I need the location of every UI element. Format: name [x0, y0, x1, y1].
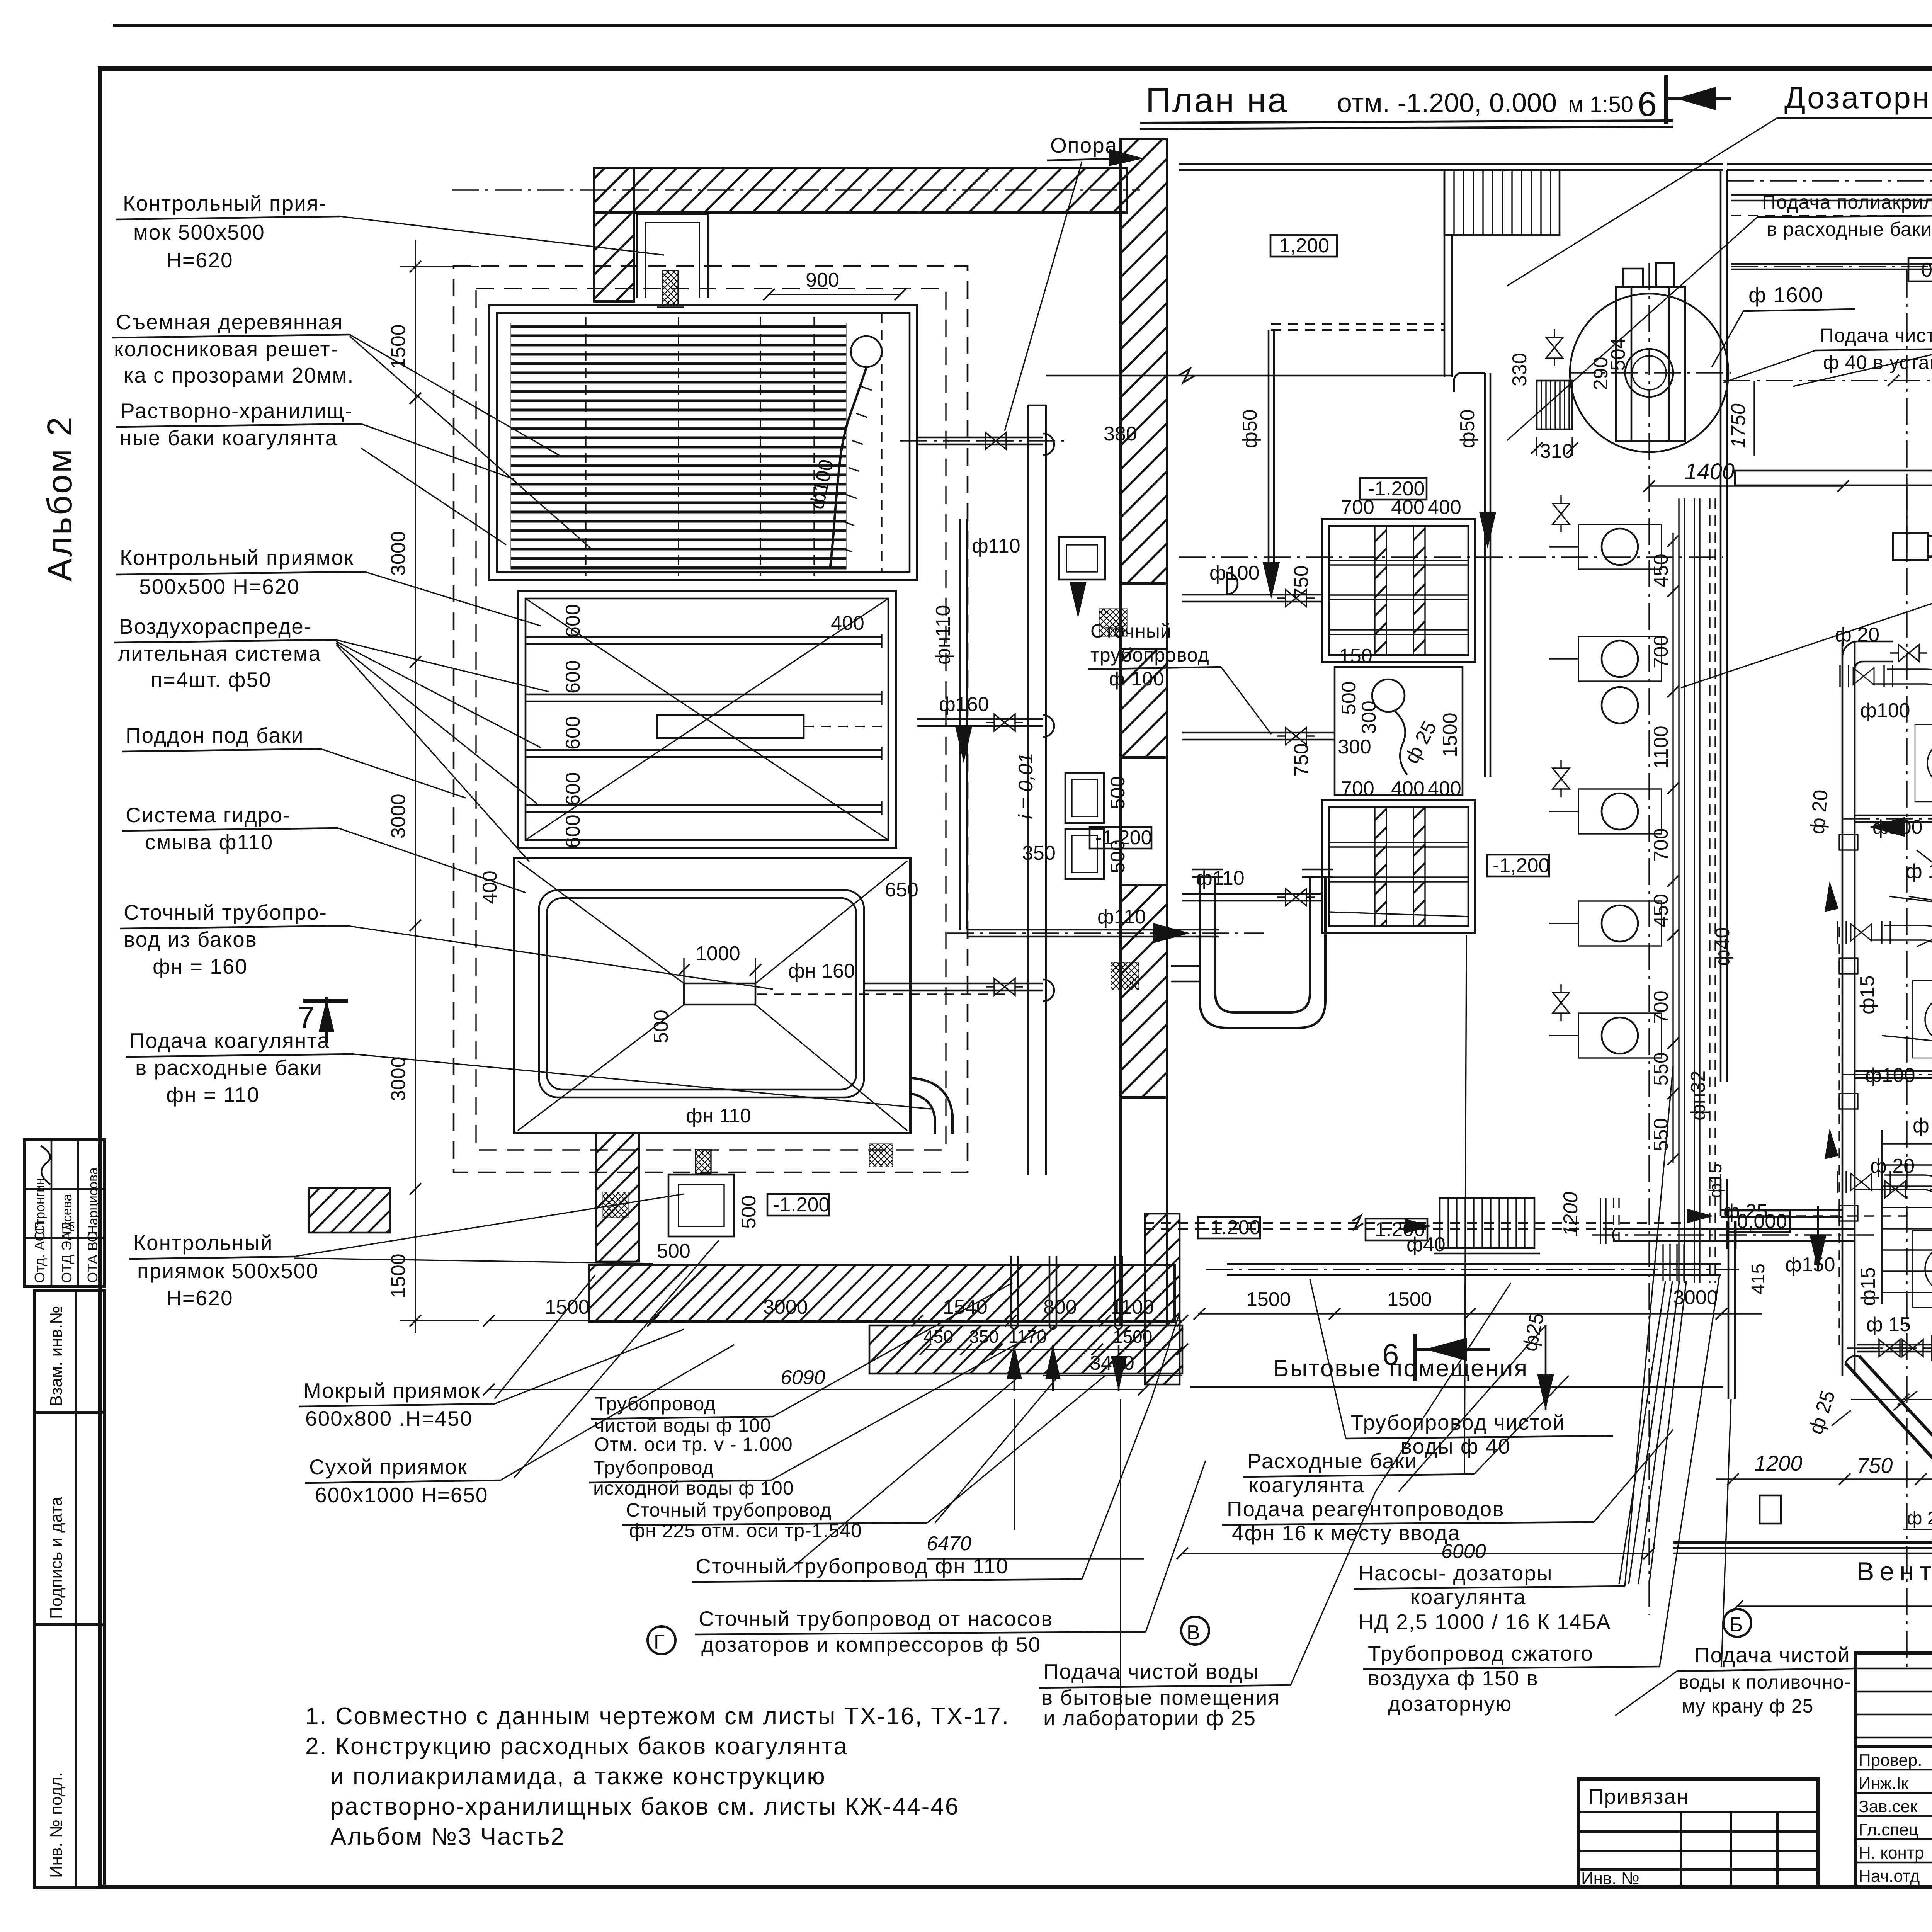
svg-text:6090: 6090 [781, 1366, 825, 1389]
section flag 6 top [1638, 75, 1731, 124]
svg-text:3000: 3000 [1673, 1286, 1718, 1309]
svg-text:коагулянта: коагулянта [1410, 1585, 1526, 1609]
f50 vertical pipe 2 [1454, 373, 1496, 777]
svg-text:6: 6 [1638, 85, 1658, 124]
f20 branch with valve [1855, 1155, 1932, 1198]
svg-text:504: 504 [1607, 337, 1629, 371]
air pipe 1 [525, 634, 882, 648]
label сточный трубопровод ф100 [1088, 620, 1271, 734]
dashed basin outline inner [476, 289, 946, 1150]
compressor unit 3 [1838, 1171, 1932, 1335]
svg-text:ф100: ф100 [1860, 699, 1910, 722]
svg-text:ф50: ф50 [1239, 409, 1261, 448]
svg-text:Съемная деревянная: Съемная деревянная [116, 310, 343, 334]
axis circle Б right [1723, 1609, 1751, 1637]
svg-text:мок 500x500: мок 500x500 [133, 220, 265, 244]
label опоры [1909, 850, 1932, 947]
svg-text:ф160: ф160 [939, 693, 989, 716]
svg-text:3000: 3000 [387, 531, 410, 576]
svg-text:Гусева: Гусева [60, 1194, 75, 1235]
svg-text:лительная система: лительная система [118, 641, 321, 665]
svg-text:Н=620: Н=620 [166, 248, 233, 272]
svg-text:Зав.сек: Зав.сек [1859, 1797, 1918, 1816]
svg-text:в расходные баки: в расходные баки [135, 1056, 323, 1080]
svg-text:фн 110: фн 110 [686, 1105, 751, 1127]
left stamp column [24, 1140, 105, 1888]
bottom labels center-left [305, 1066, 1932, 1850]
svg-text:Мокрый приямок: Мокрый приямок [303, 1379, 481, 1403]
svg-text:i = 0,01: i = 0,01 [1015, 753, 1037, 819]
vertical dim chain mid [1650, 533, 1679, 1165]
П-shaped hydro flush pipe loop [1171, 869, 1333, 1028]
plan title [1140, 81, 1673, 129]
svg-text:ф 20: ф 20 [1870, 1155, 1915, 1177]
svg-text:1100: 1100 [1650, 726, 1672, 769]
wall between дозаторная и компрессорная [1721, 170, 1843, 1217]
axis 13 horizontal [1727, 180, 1932, 181]
svg-text:Контрольный приямок: Контрольный приямок [120, 546, 354, 570]
label: Дозаторная [1507, 80, 1932, 286]
sheet outer top edge line [113, 24, 1932, 27]
svg-text:500: 500 [1107, 840, 1129, 873]
svg-text:воздуха ф 150 в: воздуха ф 150 в [1368, 1666, 1539, 1690]
title block [1578, 1653, 1932, 1932]
left dimension chain [387, 240, 479, 1333]
axis circle В [1181, 1617, 1209, 1645]
svg-text:в расходные баки ф 50: в расходные баки ф 50 [1767, 218, 1932, 240]
svg-text:ф15: ф15 [1856, 975, 1879, 1014]
f100 connection row mid [1843, 806, 1932, 833]
svg-text:Н=620: Н=620 [166, 1286, 233, 1310]
svg-text:Провер.: Провер. [1859, 1751, 1922, 1770]
dry sump rects [1022, 773, 1129, 879]
svg-text:800: 800 [1043, 1296, 1077, 1318]
svg-text:ф110: ф110 [1196, 867, 1245, 889]
svg-text:2. Конструкцию расходных бак: 2. Конструкцию расходных баков коагулянт… [305, 1733, 848, 1760]
svg-text:1500: 1500 [387, 1253, 410, 1298]
svg-text:ф50: ф50 [1456, 409, 1479, 448]
svg-text:415: 415 [1748, 1264, 1769, 1294]
svg-text:приямок 500x500: приямок 500x500 [137, 1259, 319, 1283]
svg-text:1.200: 1.200 [1375, 1218, 1425, 1241]
svg-text:ф150: ф150 [1785, 1253, 1835, 1276]
air distribution tank [518, 591, 896, 848]
расходные баки tank 3 [1322, 777, 1475, 933]
svg-text:450: 450 [1650, 894, 1672, 927]
compressor unit 1 [1840, 665, 1932, 830]
dim 6000 bottom [1177, 1548, 1655, 1559]
svg-text:1200: 1200 [1560, 1192, 1582, 1236]
middle block: pumps, risers, bottom [1144, 170, 1907, 1584]
svg-text:650: 650 [885, 879, 918, 901]
svg-text:Сточный трубопровод фн 110: Сточный трубопровод фн 110 [696, 1554, 1009, 1578]
svg-text:350: 350 [1022, 842, 1056, 864]
svg-text:600x800 .Н=450: 600x800 .Н=450 [305, 1406, 473, 1430]
elevation 0.000 top [1908, 258, 1932, 281]
section mark 7 [298, 997, 348, 1043]
svg-text:900: 900 [806, 269, 839, 291]
extra leader lines bundle [495, 935, 1932, 1667]
svg-text:трубопровод: трубопровод [1090, 644, 1209, 666]
pipe B f160 [917, 693, 1054, 737]
vertical axis through УРП [1648, 263, 1650, 1615]
svg-text:Насосы- дозаторы: Насосы- дозаторы [1358, 1561, 1553, 1585]
svg-text:700: 700 [1341, 777, 1374, 800]
label подача полиакриламида [1507, 191, 1932, 440]
svg-text:1540: 1540 [943, 1296, 988, 1318]
svg-text:дозаторов и компрессоров ф: дозаторов и компрессоров ф 50 [701, 1633, 1041, 1656]
svg-text:400: 400 [1428, 777, 1461, 800]
svg-text:6000: 6000 [1441, 1540, 1486, 1563]
svg-text:Привязан: Привязан [1588, 1784, 1689, 1808]
svg-text:1. Совместно с данным чертежом: 1. Совместно с данным чертежом см листы … [305, 1703, 1010, 1730]
svg-text:В: В [1187, 1621, 1200, 1644]
svg-text:ф 25: ф 25 [1907, 1508, 1932, 1529]
svg-text:1000: 1000 [696, 942, 740, 965]
control sump bracket top [637, 214, 708, 307]
dosing pumps column [1549, 495, 1662, 1058]
svg-text:Сухой приямок: Сухой приямок [309, 1455, 468, 1479]
risers bundle [1679, 498, 1734, 1283]
pipe C lower valve [864, 978, 1054, 1001]
elevation 1,200 box [1270, 235, 1337, 257]
svg-text:чистой воды ф 100: чистой воды ф 100 [594, 1415, 771, 1436]
svg-text:Расходные баки: Расходные баки [1247, 1449, 1418, 1473]
bottom area: dashed f40 run [1144, 1200, 1907, 1256]
svg-text:ф 20: ф 20 [1806, 789, 1832, 835]
svg-text:Подача реагентопроводов: Подача реагентопроводов [1227, 1497, 1505, 1521]
crosshatch patches [1099, 609, 1127, 636]
svg-text:ф110: ф110 [1097, 906, 1146, 928]
main riser pipe f20 [1842, 641, 1844, 1376]
polyacrylamide feed rails to склад [1731, 194, 1932, 196]
svg-text:1500: 1500 [1387, 1288, 1432, 1311]
svg-text:ф40: ф40 [1711, 927, 1734, 966]
svg-text:НД 2,5 1000 / 16 К 14БА: НД 2,5 1000 / 16 К 14БА [1358, 1610, 1611, 1634]
svg-text:600: 600 [562, 660, 584, 694]
bottom wall double line (бытовые) [1190, 1386, 1723, 1388]
svg-text:1200: 1200 [1754, 1451, 1803, 1475]
elevation -1.200 box left [767, 1194, 830, 1216]
svg-text:ф 40 в установку УРП-3: ф 40 в установку УРП-3 [1823, 352, 1932, 373]
compressor unit 2 [1838, 921, 1932, 1086]
svg-text:380: 380 [1104, 423, 1137, 445]
svg-text:колосниковая решет-: колосниковая решет- [114, 337, 338, 361]
wall below stairs [1444, 234, 1452, 236]
f25 riser bundle near stairs [1519, 1198, 1684, 1410]
svg-text:ф 20: ф 20 [1835, 624, 1879, 646]
svg-text:3000: 3000 [387, 1056, 410, 1101]
svg-text:ф 1600: ф 1600 [1748, 283, 1824, 307]
svg-text:Подпись и дата: Подпись и дата [47, 1497, 66, 1619]
svg-text:фн 160: фн 160 [788, 960, 855, 982]
pan under tanks (поддон) [479, 858, 1005, 1133]
axis verticals [1906, 270, 1907, 1669]
f25 pipe down [1810, 927, 1839, 1352]
dims 3000 1150 [1851, 1371, 1932, 1405]
svg-text:600: 600 [562, 815, 584, 848]
svg-text:300: 300 [1358, 701, 1380, 734]
top wall double line [1179, 163, 1723, 165]
svg-text:Подача чистой воды: Подача чистой воды [1820, 325, 1932, 346]
top wall continuation [1727, 163, 1932, 165]
elevation -1.200 box mid-left [1090, 827, 1152, 849]
svg-text:фн = 110: фн = 110 [166, 1083, 260, 1107]
bottom stubs through band [1007, 1256, 1126, 1391]
svg-text:фн = 160: фн = 160 [153, 954, 248, 978]
valves on feed pipes from left wall [1182, 562, 1335, 906]
bottom control sump 500x500 [657, 1150, 760, 1262]
svg-text:Инв. № подл.: Инв. № подл. [47, 1772, 66, 1878]
svg-text:ка с прозорами 20мм.: ка с прозорами 20мм. [124, 363, 354, 387]
svg-text:Растворно-хранилищ-: Растворно-хранилищ- [121, 399, 353, 423]
dim texts above band [1227, 1263, 1721, 1265]
hatched block far left bottom [309, 1188, 390, 1233]
svg-text:3000: 3000 [763, 1296, 808, 1318]
svg-text:Сточный трубопровод: Сточный трубопровод [626, 1499, 832, 1521]
svg-text:Воздухораспреде-: Воздухораспреде- [119, 614, 312, 638]
svg-text:воды к поливочно-: воды к поливочно- [1679, 1671, 1851, 1693]
svg-text:Сточный трубопро-: Сточный трубопро- [124, 900, 327, 924]
dim 3470 [1043, 1352, 1182, 1376]
svg-text:Инв. №: Инв. № [1581, 1869, 1639, 1888]
svg-text:-1.200: -1.200 [773, 1194, 830, 1216]
svg-text:Альбом №3 Часть2: Альбом №3 Часть2 [330, 1823, 565, 1850]
svg-text:500: 500 [1338, 681, 1360, 715]
svg-text:и лаборатории ф 25: и лаборатории ф 25 [1043, 1706, 1256, 1730]
long horizontal axis [1179, 556, 1723, 558]
svg-text:6470: 6470 [927, 1532, 971, 1555]
svg-text:ф 15: ф 15 [1866, 1313, 1911, 1336]
svg-text:Отм. оси тр. v - 1.000: Отм. оси тр. v - 1.000 [594, 1434, 793, 1455]
wall top band hatched [594, 168, 1127, 213]
svg-text:Контрольный прия-: Контрольный прия- [123, 191, 327, 215]
stairs bottom [1434, 1198, 1540, 1253]
svg-text:Б: Б [1730, 1614, 1743, 1636]
svg-text:ф15: ф15 [1857, 1267, 1879, 1306]
block A: привязан [1578, 1779, 1818, 1888]
svg-text:Н. контр: Н. контр [1859, 1844, 1924, 1862]
air pipe 2 [525, 691, 882, 705]
svg-text:1,200: 1,200 [1279, 235, 1329, 257]
crane beam [1893, 533, 1932, 560]
svg-text:Венткамера: Венткамера [1857, 1557, 1932, 1586]
svg-text:План на: План на [1146, 81, 1289, 120]
extras: hydro flush loop, stairs ladder, misc labels [869, 620, 1932, 1384]
svg-text:-1.200: -1.200 [1368, 478, 1425, 500]
svg-text:Гл.спец: Гл.спец [1859, 1820, 1918, 1839]
svg-text:1500: 1500 [1246, 1288, 1291, 1311]
air pipe 3 [525, 747, 882, 760]
svg-text:330: 330 [1509, 353, 1531, 386]
wall right of tanks [1028, 405, 1046, 1175]
svg-text:-1,200: -1,200 [1493, 854, 1549, 877]
svg-text:750: 750 [1857, 1453, 1893, 1478]
svg-text:Взам. инв.№: Взам. инв.№ [47, 1306, 66, 1406]
таль rails [1735, 471, 1932, 485]
svg-text:Альбом 2: Альбом 2 [41, 415, 79, 582]
svg-text:Подача коагулянта: Подача коагулянта [129, 1029, 330, 1053]
central manifold [657, 715, 804, 738]
svg-text:400: 400 [1428, 496, 1461, 519]
svg-text:ф110: ф110 [972, 535, 1020, 557]
elevation -1.200 box [1360, 478, 1427, 500]
svg-text:1500: 1500 [387, 324, 410, 369]
svg-text:Трубопровод: Трубопровод [595, 1393, 716, 1415]
svg-text:500: 500 [657, 1240, 690, 1262]
svg-text:фн32: фн32 [1687, 1071, 1709, 1121]
dims 1200 750 1350 2700 [1716, 1264, 1932, 1517]
axis line through top wall [452, 189, 1140, 190]
right label column [1681, 162, 1932, 1624]
svg-text:Г: Г [654, 1631, 665, 1653]
svg-text:п=4шт. ф50: п=4шт. ф50 [151, 668, 272, 692]
svg-text:400: 400 [831, 612, 864, 634]
pipe A with valve (опора) [900, 432, 1066, 455]
венткамера wall [1673, 1535, 1932, 1553]
svg-text:Система гидро-: Система гидро- [126, 803, 291, 827]
svg-text:500: 500 [738, 1195, 760, 1229]
horizontal suction pipe f200 [1903, 1488, 1932, 1538]
motor with fine hatch [1537, 381, 1572, 429]
svg-text:Нарцисова: Нарцисова [86, 1167, 100, 1235]
svg-text:Подача чистой: Подача чистой [1694, 1643, 1850, 1667]
main f110 drain [947, 906, 1264, 943]
bottom wall hatched band [589, 1265, 1175, 1322]
big vertical hatched wall x2900 [1121, 139, 1167, 1325]
svg-text:Подача чистой воды: Подача чистой воды [1043, 1660, 1259, 1684]
svg-text:Поддон под баки: Поддон под баки [126, 723, 304, 747]
svg-text:450: 450 [1650, 554, 1672, 587]
svg-text:фн110: фн110 [932, 605, 954, 665]
curved drain from pan [912, 1078, 952, 1134]
air pipe 4 [525, 801, 882, 815]
svg-text:м 1:50: м 1:50 [1568, 92, 1633, 117]
svg-text:600x1000 Н=650: 600x1000 Н=650 [315, 1483, 488, 1507]
svg-text:Бытовые помещения: Бытовые помещения [1273, 1355, 1528, 1382]
svg-text:150: 150 [1339, 645, 1372, 667]
bottom dim row 2 [920, 1327, 1188, 1355]
svg-text:Трубопровод сжатого: Трубопровод сжатого [1368, 1641, 1594, 1665]
svg-text:исходной воды ф 100: исходной воды ф 100 [593, 1477, 794, 1499]
ladder in compressor room [1882, 1130, 1932, 1304]
svg-text:ф 15: ф 15 [1913, 1114, 1932, 1137]
svg-text:Нач.отд: Нач.отд [1859, 1867, 1920, 1886]
svg-text:600: 600 [562, 604, 584, 638]
svg-text:3000: 3000 [387, 794, 410, 838]
vertical leader lines bottom left [1014, 1399, 1015, 1530]
svg-text:коагулянта: коагулянта [1249, 1473, 1365, 1497]
svg-text:Сточный: Сточный [1090, 620, 1172, 642]
svg-text:ф100: ф100 [1865, 1064, 1915, 1087]
svg-text:дозаторную: дозаторную [1388, 1692, 1512, 1716]
bottom-left hatched pier [596, 1133, 639, 1262]
stairs top [1444, 170, 1560, 235]
svg-text:отм. -1.200, 0.000: отм. -1.200, 0.000 [1337, 88, 1557, 118]
label опора with arrow [1005, 133, 1144, 431]
wall/pipe below 0.000 left [1728, 1221, 1730, 1399]
svg-text:550: 550 [1650, 1118, 1672, 1151]
svg-text:400: 400 [1391, 777, 1425, 800]
svg-text:ф 100: ф 100 [1109, 668, 1164, 690]
svg-text:1750: 1750 [1727, 403, 1750, 448]
svg-text:Стронгин: Стронгин [33, 1178, 48, 1235]
svg-text:600: 600 [562, 716, 584, 750]
svg-text:и полиакриламида, а также конс: и полиакриламида, а также конструкцию [330, 1763, 826, 1790]
svg-text:500: 500 [1107, 776, 1129, 810]
section flag 6 bottom [1382, 1334, 1490, 1381]
svg-text:700: 700 [1650, 828, 1672, 862]
svg-text:700: 700 [1650, 990, 1672, 1024]
hatched wall pieces бытовые [1145, 1214, 1180, 1384]
svg-text:смыва ф110: смыва ф110 [145, 830, 273, 854]
wall pier top-left hatched [594, 168, 634, 301]
svg-text:6: 6 [1382, 1337, 1400, 1371]
svg-text:-1.200: -1.200 [1204, 1216, 1260, 1239]
расходные баки tank 2 (middle) [1335, 645, 1463, 795]
svg-text:750: 750 [1290, 743, 1313, 777]
svg-text:1500: 1500 [545, 1296, 590, 1318]
установка УРП-3 [1509, 263, 1731, 463]
wet sump rect [1059, 537, 1105, 580]
svg-text:Трубопровод чистой: Трубопровод чистой [1350, 1410, 1565, 1434]
svg-text:му крану ф 25: му крану ф 25 [1682, 1695, 1813, 1717]
label подача чистой воды ф40 [1723, 325, 1932, 383]
elevation boxes bottom [1198, 1216, 1260, 1239]
svg-text:ф 15: ф 15 [1906, 860, 1932, 883]
svg-text:1500: 1500 [1439, 713, 1461, 757]
block B: signatures [1855, 1653, 1932, 1887]
diagonal suction pipe [1845, 1356, 1932, 1526]
svg-text:Инж.Iк: Инж.Iк [1859, 1774, 1909, 1793]
grating tank (растворно-хранилищные баки) [489, 305, 917, 580]
svg-text:ОТА ВС: ОТА ВС [85, 1232, 100, 1283]
axis circle Г [648, 1626, 675, 1654]
svg-text:500: 500 [650, 1010, 672, 1043]
dim 1400 [1643, 459, 1849, 492]
dashed basin outline outer [454, 266, 968, 1172]
svg-text:400: 400 [479, 871, 501, 904]
f150 main from left [1592, 1221, 1874, 1249]
f50 drain dashed pipe [1239, 324, 1444, 599]
svg-text:300: 300 [1338, 736, 1371, 758]
svg-text:ф15: ф15 [1705, 1163, 1725, 1198]
svg-text:4фн 16 к месту ввода: 4фн 16 к месту ввода [1232, 1521, 1461, 1545]
svg-text:550: 550 [1650, 1052, 1672, 1086]
svg-text:Сточный трубопровод от насо: Сточный трубопровод от насосов [699, 1607, 1053, 1631]
dim 900 top [763, 269, 906, 300]
label ф1600 [1712, 283, 1855, 367]
svg-text:вод из баков: вод из баков [124, 927, 257, 951]
pipes between left tanks and wall [483, 133, 1264, 1716]
расходные баки tank 1 [1322, 496, 1475, 662]
vertical pipe fn110 [932, 519, 1020, 930]
left label column [112, 191, 931, 1507]
svg-text:700: 700 [1650, 635, 1672, 668]
svg-text:растворно-хранилищных баков: растворно-хранилищных баков см. листы КЖ… [330, 1793, 959, 1820]
svg-text:ф100: ф100 [1209, 562, 1260, 584]
fan of pipes from stairs to labels [1619, 1281, 1665, 1584]
float ball [806, 336, 882, 569]
bottom dim row 1 [483, 1296, 1188, 1327]
svg-text:600: 600 [562, 772, 584, 806]
svg-text:Дозаторная: Дозаторная [1784, 80, 1932, 115]
svg-text:500x500 Н=620: 500x500 Н=620 [139, 575, 300, 599]
svg-text:ные баки коагулянта: ные баки коагулянта [120, 426, 338, 450]
lower f15 row [1847, 1170, 1932, 1361]
svg-text:Контрольный: Контрольный [133, 1231, 273, 1255]
svg-text:Опора: Опора [1050, 133, 1117, 157]
